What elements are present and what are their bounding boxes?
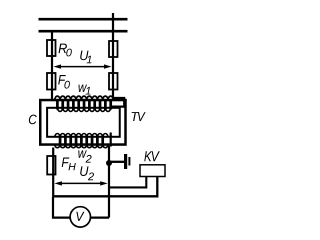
winding w2 loops <box>55 133 108 147</box>
capacitor short plate <box>128 157 130 166</box>
wire: w2 left lead through FH <box>52 148 54 197</box>
bus bar line 2 <box>39 30 128 33</box>
right branch top box <box>109 41 118 57</box>
label V <box>76 212 84 221</box>
wire: left branch drop from bus 2 <box>51 30 53 100</box>
U1 dimension arrow <box>58 66 107 68</box>
label KV <box>144 151 160 161</box>
label TV <box>132 112 146 121</box>
voltmeter V <box>70 207 90 227</box>
resistor R0 box <box>47 40 56 56</box>
kilovoltmeter box <box>140 165 165 177</box>
junction dot <box>106 160 112 166</box>
label C <box>29 115 37 125</box>
label U2 <box>80 166 94 180</box>
wire: KV left lead to middle wire <box>109 177 146 188</box>
label w1 <box>79 85 91 95</box>
label w2 <box>78 150 91 162</box>
bus bar line 1 <box>39 18 128 21</box>
fuse FH box <box>47 156 55 175</box>
wire: V loop bottom <box>53 196 109 217</box>
transformer inner core window <box>47 108 120 137</box>
fuse F0 box <box>47 73 56 90</box>
wire: w2 right lead down through core <box>110 133 112 147</box>
label F0 <box>58 75 70 89</box>
wire: KV right lead and bottom main wire <box>53 177 157 197</box>
wire: right branch drop with top stub and hook to winding w1 <box>111 13 124 107</box>
label U1 <box>80 51 91 64</box>
right branch bottom box <box>109 73 118 90</box>
transformer outer core rectangle <box>40 100 125 145</box>
label R0 <box>59 44 72 57</box>
wire to capacitor plates <box>109 161 124 163</box>
wire: middle vertical <box>108 146 110 218</box>
winding w1 loops <box>55 96 114 111</box>
U2 dimension arrow <box>58 182 103 184</box>
capacitor tall plate <box>124 154 127 169</box>
label FH <box>62 158 76 171</box>
